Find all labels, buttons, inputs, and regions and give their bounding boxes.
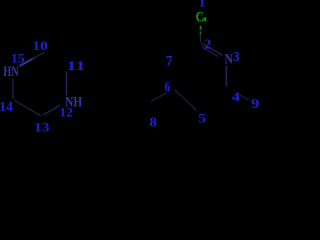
svg-text:9: 9 (251, 96, 260, 111)
wire: double bond C2=N3 line 2 (202, 47, 218, 56)
svg-text:4: 4 (232, 90, 241, 104)
svg-text:14: 14 (0, 99, 13, 114)
svg-text:5: 5 (198, 111, 206, 125)
svg-text:11: 11 (66, 59, 86, 73)
svg-text:NH: NH (65, 94, 82, 111)
svg-text:C: C (196, 10, 204, 26)
svg-text:6: 6 (164, 79, 170, 95)
svg-text:3: 3 (233, 49, 240, 64)
svg-text:2: 2 (204, 37, 211, 52)
wire: bond C13-N12 (44, 105, 61, 115)
svg-text:HN: HN (3, 63, 19, 80)
svg-text:8: 8 (150, 115, 157, 130)
wire: bond Cl1-C2 green half (200, 26, 202, 30)
wire: bond N15-C10 (20, 58, 35, 66)
svg-text:7: 7 (166, 53, 173, 69)
wire: bond N3-C4 (225, 66, 227, 87)
wire: double bond C2=N3 line 1 (202, 43, 223, 55)
wire: bond N12-C11 (66, 72, 68, 96)
wire: bond C6-C5 (175, 90, 197, 111)
wire: bond C4-C9 (239, 95, 249, 100)
svg-text:13: 13 (34, 120, 50, 133)
wire: bond C14-C13 (15, 101, 42, 117)
wire: bond N15-C14 (12, 79, 14, 100)
svg-text:1: 1 (198, 0, 206, 10)
wire: bond C6-C8 (151, 93, 167, 101)
svg-text:10: 10 (32, 39, 47, 53)
wire: bond Cl1-C2 navy half (200, 35, 202, 43)
